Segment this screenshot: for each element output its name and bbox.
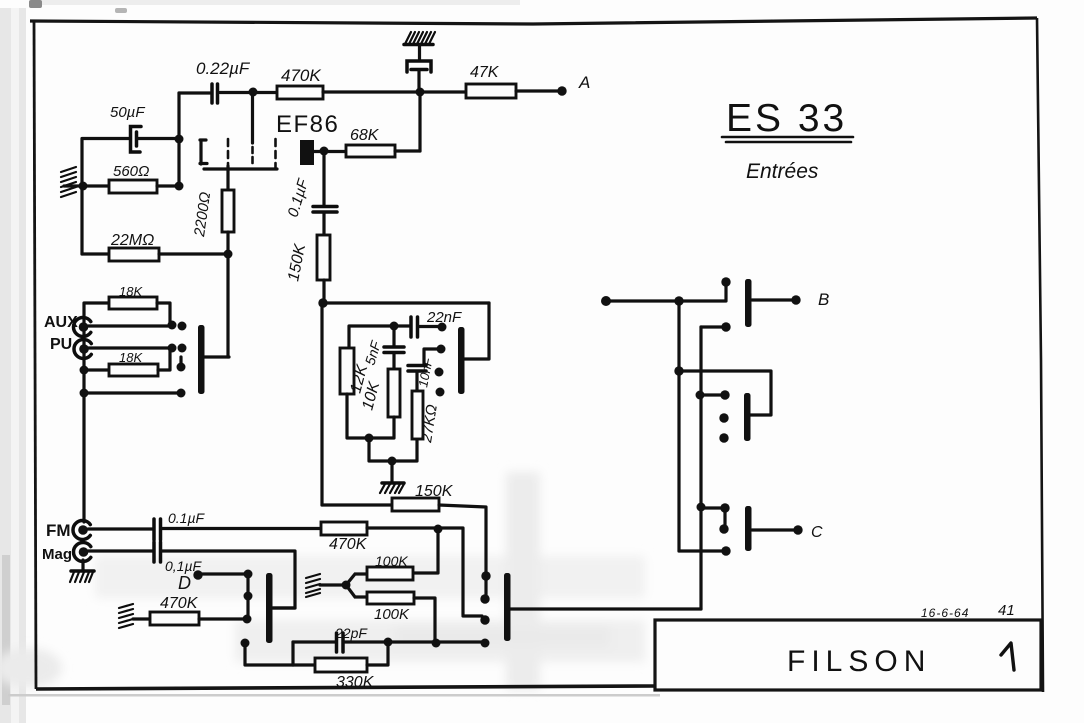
svg-text:47K: 47K (470, 64, 500, 81)
svg-text:18K: 18K (119, 284, 143, 299)
svg-text:22pF: 22pF (334, 625, 368, 641)
svg-text:A: A (578, 73, 590, 92)
svg-text:B: B (818, 290, 829, 309)
svg-text:18K: 18K (119, 350, 143, 365)
svg-text:0.22µF: 0.22µF (196, 59, 251, 78)
svg-text:22MΩ: 22MΩ (110, 232, 154, 249)
svg-text:2200Ω: 2200Ω (191, 191, 214, 239)
svg-text:C: C (811, 524, 823, 541)
svg-text:Mag: Mag (42, 546, 72, 563)
svg-text:470K: 470K (329, 536, 368, 553)
svg-text:100K: 100K (374, 606, 410, 623)
svg-text:470K: 470K (160, 595, 199, 612)
svg-text:150K: 150K (285, 242, 309, 283)
svg-text:5nF: 5nF (362, 338, 385, 367)
svg-text:10nF: 10nF (415, 356, 436, 389)
svg-text:560Ω: 560Ω (113, 163, 149, 180)
svg-text:50µF: 50µF (110, 104, 145, 121)
svg-text:330K: 330K (336, 674, 375, 691)
svg-text:AUX: AUX (44, 314, 78, 331)
svg-text:EF86: EF86 (276, 111, 339, 138)
svg-text:FM: FM (46, 521, 71, 540)
svg-text:68K: 68K (350, 127, 380, 144)
svg-text:PU: PU (50, 336, 72, 353)
svg-text:D: D (178, 573, 191, 593)
svg-text:470K: 470K (281, 66, 321, 85)
svg-text:0.1µF: 0.1µF (168, 510, 206, 526)
svg-text:100K: 100K (375, 553, 408, 569)
svg-text:0.1µF: 0.1µF (285, 176, 313, 219)
svg-text:150K: 150K (415, 483, 454, 500)
svg-text:22nF: 22nF (426, 309, 462, 326)
